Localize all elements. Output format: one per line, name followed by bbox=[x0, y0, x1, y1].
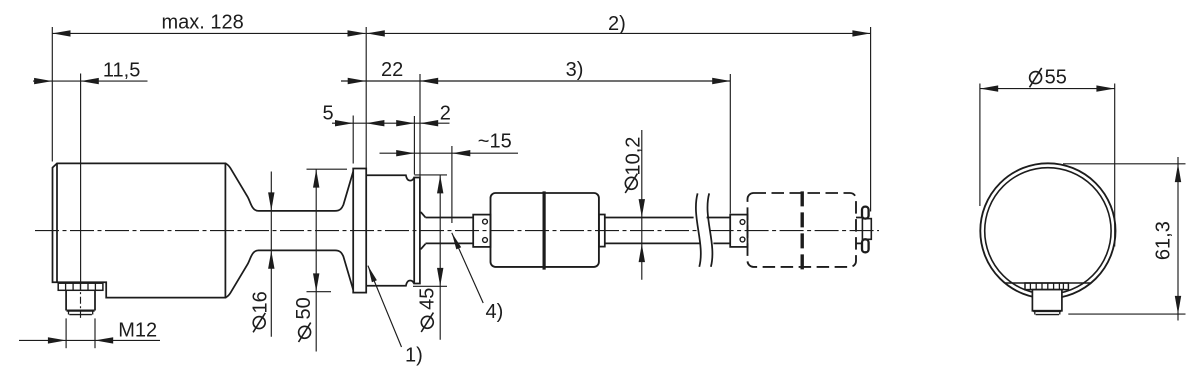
front M12 cap sides bbox=[1034, 311, 1036, 315]
dimension ~15 arrows bbox=[396, 150, 414, 156]
svg-text:16: 16 bbox=[250, 291, 272, 313]
svg-text:4): 4) bbox=[486, 301, 504, 323]
break curve left bbox=[696, 193, 701, 266]
dimension 5 / 2 line bbox=[332, 122, 450, 124]
extension line M12 axis bbox=[80, 74, 82, 283]
rod end stub bottom bbox=[856, 242, 862, 244]
dimension 61,3 arrows bbox=[1175, 164, 1181, 182]
front M12 collar bbox=[1025, 283, 1068, 290]
float 1 hub collar bbox=[599, 215, 605, 247]
svg-text:50: 50 bbox=[293, 297, 315, 319]
dimension 61,3 ext bottom bbox=[1068, 313, 1185, 315]
leader arrow 4) bbox=[452, 233, 461, 250]
dimension 11,5 arrows bbox=[34, 78, 52, 84]
extension line flange right face bbox=[365, 27, 367, 168]
dimension 11,5 line bbox=[33, 80, 148, 82]
front M12 collar ticks bbox=[1029, 283, 1031, 290]
end clip top pill bbox=[862, 207, 869, 219]
dimension max. 128 arrows bbox=[52, 30, 70, 36]
centerline main axis (left part) bbox=[35, 230, 697, 232]
front M12 barrel bbox=[1032, 290, 1062, 311]
rod segment 2 bottom bbox=[605, 242, 701, 244]
svg-text:3): 3) bbox=[566, 59, 584, 81]
extension line flange left face bbox=[352, 116, 354, 164]
svg-text:1): 1) bbox=[405, 345, 423, 367]
float 1 body bbox=[491, 193, 599, 267]
flare to flange bottom bbox=[335, 250, 353, 289]
rod segment 3 top bbox=[707, 217, 731, 219]
clamp 1 set screw lower bbox=[483, 238, 488, 243]
front chord line bbox=[1005, 282, 1091, 284]
dimension max. 128 line bbox=[52, 32, 365, 34]
svg-text:M12: M12 bbox=[118, 320, 157, 342]
dimension dia50 ext bottom bbox=[307, 291, 332, 293]
M12 connector axis centerline bbox=[80, 283, 82, 321]
dimension M12 arrows bbox=[48, 337, 66, 343]
housing taper top bbox=[225, 163, 258, 211]
float 1 magnet band bbox=[542, 191, 545, 269]
svg-text:2: 2 bbox=[440, 103, 451, 125]
end clip bottom pill bbox=[862, 239, 869, 252]
dimension 22 arrows bbox=[348, 78, 366, 84]
svg-text:~15: ~15 bbox=[478, 131, 512, 153]
extension line rod end clip bbox=[870, 27, 872, 212]
dimension dia55 line bbox=[980, 88, 1115, 90]
dimension 61,3 ext top bbox=[1063, 163, 1186, 165]
dimension dia50 label symbol bbox=[299, 326, 311, 338]
svg-text:61,3: 61,3 bbox=[1153, 221, 1175, 260]
housing outline bbox=[53, 163, 226, 297]
float 2 magnet band dashed bbox=[801, 191, 804, 269]
end clip middle block bbox=[862, 219, 871, 240]
dimension dia55 label symbol bbox=[1030, 72, 1042, 84]
extension line circle left bbox=[979, 84, 981, 207]
dimension dia10,2 line bbox=[641, 130, 643, 280]
M12 cap bottom edge bbox=[69, 314, 92, 316]
float clamp 1 bbox=[473, 215, 490, 247]
centerline main axis (right part) bbox=[710, 230, 879, 232]
svg-text:10,2: 10,2 bbox=[623, 137, 645, 176]
M12 barrel right bbox=[94, 290, 96, 310]
extension lines M12 plug bbox=[65, 318, 67, 348]
front view outer circle bbox=[980, 163, 1115, 298]
svg-text:11,5: 11,5 bbox=[103, 59, 140, 81]
leader line 1) bbox=[368, 266, 402, 347]
shoulder cone top bbox=[420, 213, 426, 218]
extension line circle right bbox=[1114, 84, 1116, 247]
svg-text:55: 55 bbox=[1045, 67, 1067, 89]
dimension dia45 line bbox=[439, 175, 441, 340]
dimension 2) line bbox=[367, 32, 871, 34]
housing taper bottom bbox=[225, 250, 258, 297]
dimension dia55 arrows bbox=[980, 85, 998, 91]
extension line housing left face bbox=[51, 27, 53, 162]
dimension dia10,2 arrows bbox=[639, 199, 645, 217]
dimension dia45 ext top bbox=[415, 174, 448, 176]
dimension dia50 ext top bbox=[307, 168, 348, 170]
clamp 2 set screw upper bbox=[740, 220, 745, 225]
leader line 4) bbox=[452, 233, 483, 303]
dimension dia16 line bbox=[270, 172, 272, 337]
front M12 cap top edge bbox=[1033, 310, 1061, 312]
body bottom edge with relief notch bbox=[366, 281, 414, 286]
dimension 22 / 3) line bbox=[341, 80, 730, 82]
svg-text:2): 2) bbox=[608, 13, 626, 35]
dimension dia45 arrows bbox=[437, 175, 443, 193]
housing left inner wall line bbox=[56, 163, 58, 282]
body top edge with relief notch bbox=[366, 175, 414, 180]
rod segment 3 bottom bbox=[713, 242, 730, 244]
M12 barrel left bbox=[65, 290, 67, 310]
float 2 body dashed bbox=[748, 193, 857, 267]
rod segment 1 top bbox=[426, 217, 474, 219]
neck top edge bbox=[259, 210, 336, 212]
dimension dia50 line bbox=[315, 169, 317, 351]
front M12 cap bottom edge bbox=[1036, 314, 1059, 316]
extension line disc right face bbox=[419, 74, 421, 177]
break curve right bbox=[707, 193, 712, 266]
leader arrow 1) bbox=[368, 266, 377, 283]
shoulder cone bottom bbox=[420, 244, 426, 249]
clamp 2 set screw lower bbox=[740, 237, 745, 242]
extension line clamp 2 left face bbox=[729, 74, 731, 214]
dimension 61,3 line bbox=[1177, 157, 1179, 321]
dimension 2 arrows bbox=[396, 120, 414, 126]
dimension M12 line bbox=[19, 339, 160, 341]
dimension 2) arrows bbox=[367, 30, 385, 36]
clamp 1 set screw upper bbox=[483, 219, 488, 224]
M12 cap top edge bbox=[67, 310, 95, 312]
dimension 5 arrows bbox=[335, 120, 353, 126]
dimension dia45 ext bottom bbox=[413, 285, 447, 287]
flare to flange top bbox=[335, 172, 353, 211]
neck bottom edge bbox=[259, 249, 336, 251]
dimension dia16 label symbol bbox=[253, 317, 265, 329]
svg-text:5: 5 bbox=[323, 102, 334, 124]
flange disc bbox=[353, 169, 366, 293]
M12 collar knurl ticks bbox=[65, 283, 67, 290]
extension line disc left face bbox=[413, 116, 415, 175]
front view inner circle bbox=[985, 168, 1111, 294]
dimension ~15 line bbox=[380, 152, 519, 154]
svg-text:22: 22 bbox=[381, 59, 403, 81]
svg-text:max. 128: max. 128 bbox=[162, 11, 244, 33]
M12 knurled collar bbox=[58, 283, 103, 290]
retaining disc bbox=[414, 178, 420, 284]
rod segment 1 bottom bbox=[426, 242, 474, 244]
M12 cap sides bbox=[68, 311, 70, 315]
dimension dia10,2 label symbol bbox=[625, 177, 637, 189]
svg-text:45: 45 bbox=[417, 288, 439, 310]
rod end stub top bbox=[856, 217, 862, 219]
rod segment 2 top bbox=[605, 217, 694, 219]
extension line rod shoulder bbox=[451, 146, 453, 223]
dimension dia50 arrows bbox=[313, 169, 319, 187]
dimension dia16 arrows bbox=[268, 192, 274, 210]
dimension 3) arrow right bbox=[712, 78, 730, 84]
float clamp 2 bbox=[730, 215, 747, 247]
dimension dia45 label symbol bbox=[421, 316, 433, 328]
